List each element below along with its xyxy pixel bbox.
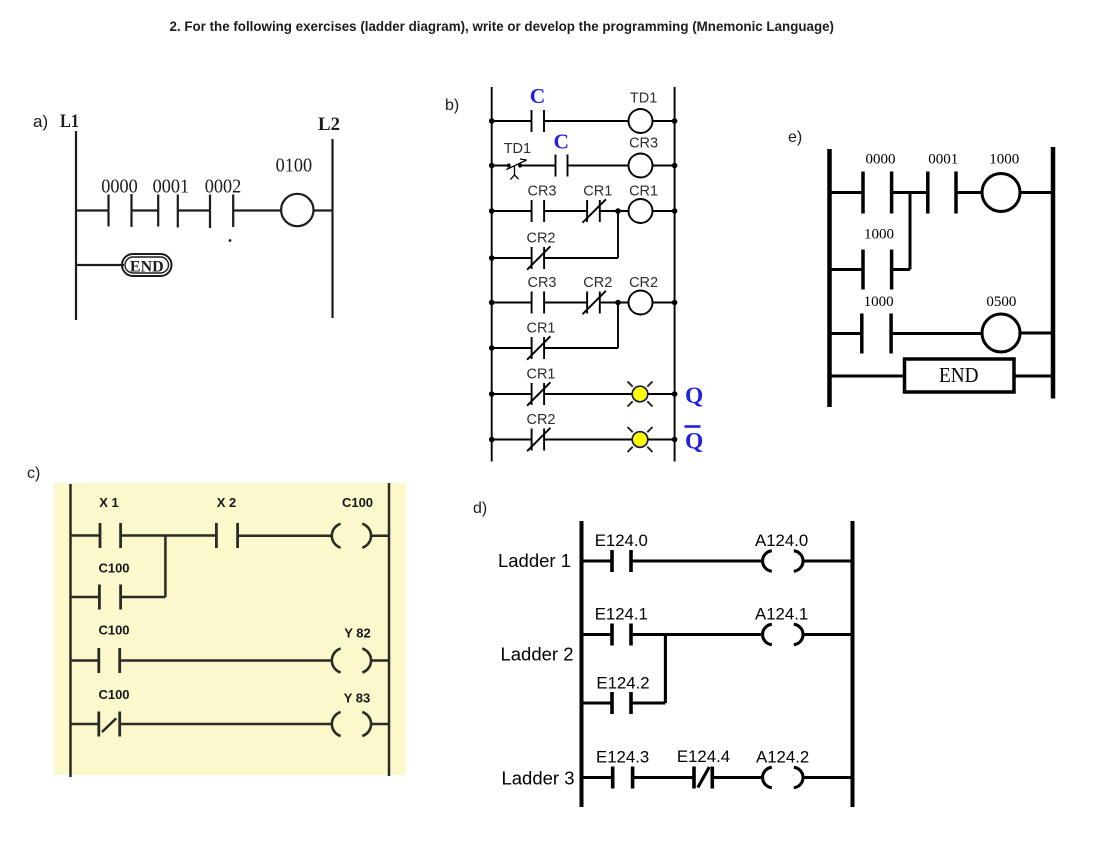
svg-text:CR2: CR2 [526,231,555,247]
svg-text:1000: 1000 [864,227,894,243]
wire [653,165,675,167]
wire [132,209,159,211]
svg-text:0000: 0000 [101,177,138,198]
node left rail rung4b [489,345,495,351]
wire [544,302,587,304]
contact CR2 NC rung4 [583,291,606,314]
branch riser [664,635,667,704]
node left rail rung5 [489,391,495,397]
coil A124.2 [763,767,803,787]
wire rung1 [76,209,109,211]
contact 1000 rung3 [862,314,891,354]
contact E124.4 NC [694,767,712,789]
node right rail rung4 [672,300,678,306]
svg-text:a): a) [33,112,48,131]
wire [803,559,853,562]
contact CR1 NC branch [527,336,550,359]
coil CR2 [629,291,653,315]
rung4 wire [830,375,905,378]
wire [1014,375,1053,378]
contact C rung2 [556,155,568,177]
contact E124.3 [613,767,633,789]
svg-text:0500: 0500 [986,294,1016,310]
rung3 wire [492,210,532,212]
contact 0000 [109,194,132,227]
left rail [827,149,832,407]
svg-text:Q: Q [685,429,703,455]
svg-text:C: C [554,130,570,154]
wire [314,209,333,211]
coil Y82 [332,649,371,673]
wire [653,210,675,212]
svg-text:END: END [130,259,164,276]
contact X2 [216,523,237,548]
svg-text:1000: 1000 [989,152,1019,168]
contact CR1 NC rung3 [583,199,606,222]
wire [631,559,763,562]
wire [544,347,618,349]
svg-text:0100: 0100 [276,156,313,177]
rung4 branch wire [492,347,532,349]
contact E124.0 [612,550,631,572]
svg-text:C100: C100 [342,495,373,510]
svg-text:1000: 1000 [864,294,894,310]
wire [600,302,629,304]
svg-text:X 2: X 2 [217,495,237,510]
wire [648,439,675,441]
svg-text:Ladder 1: Ladder 1 [498,550,571,571]
svg-text:c): c) [27,465,40,482]
panel background [54,483,406,775]
node left rail rung4 [489,300,495,306]
svg-text:TD1: TD1 [630,91,657,107]
wire [121,534,217,537]
wire [544,257,618,259]
svg-text:END: END [939,363,979,387]
wire [238,534,333,537]
wire [956,191,982,194]
contact 0001 [158,195,178,228]
wire [1020,191,1053,194]
stray mark [229,239,232,242]
svg-text:C100: C100 [98,687,129,702]
svg-text:e): e) [788,129,802,146]
svg-text:CR2: CR2 [629,275,658,291]
wire [121,596,166,599]
rung4 wire [492,302,532,304]
svg-text:CR1: CR1 [583,184,612,200]
node right rail rung3 [672,208,678,214]
svg-text:L2: L2 [318,114,340,135]
coil C100 [332,524,371,548]
left rail [580,521,584,807]
svg-text:E124.3: E124.3 [596,748,649,767]
node right rail rung5 [672,391,678,397]
wire [891,332,982,335]
svg-text:Ladder 2: Ladder 2 [500,644,573,665]
contact 1000 rung2 [863,250,892,290]
contact C100 branch [99,585,120,610]
rung1 wire [582,559,613,562]
coil 0100 [281,194,313,226]
coil Y83 [332,712,371,736]
svg-text:CR2: CR2 [583,275,612,291]
coil A124.0 [763,551,803,571]
wire [544,210,587,212]
contact 0001 [928,172,956,214]
wire [631,633,763,636]
svg-text:Q: Q [685,383,703,409]
node left rail rung1 [489,118,495,124]
wire [233,209,281,211]
rung1 wire [492,120,532,122]
contact C rung1 [532,110,545,132]
wire [370,534,389,537]
coil TD1 [629,109,653,133]
contact 0002 [210,195,233,229]
svg-text:X 1: X 1 [99,495,119,510]
contact X1 [100,523,121,548]
wire [631,701,665,704]
wire [803,633,853,636]
wire [803,776,853,779]
svg-text:0000: 0000 [866,152,896,168]
wire [544,120,629,122]
contact E124.2 [612,692,631,714]
svg-text:CR1: CR1 [629,184,658,200]
svg-text:Ladder 3: Ladder 3 [501,768,574,789]
svg-text:CR1: CR1 [526,367,555,383]
svg-text:d): d) [473,500,487,517]
contact CR2 NC rung6 [527,428,550,451]
rung2 wire [830,268,864,271]
node left rail rung2 [489,163,495,169]
timed contact TD1 [506,159,526,180]
wire [544,393,632,395]
svg-text:A124.1: A124.1 [755,605,808,624]
left rail [69,484,72,777]
svg-text:E124.1: E124.1 [595,605,648,624]
coil A124.1 [763,624,803,644]
wire to END [76,264,124,266]
lamp Qbar [628,427,653,452]
svg-text:C: C [530,84,546,108]
right rail [388,483,391,776]
wire [120,723,333,726]
branch riser [617,303,619,349]
wire [653,302,675,304]
rung2 branch wire [582,701,613,704]
coil CR3 [629,154,653,178]
coil 0500 [982,314,1020,352]
node right rail rung6 [672,437,678,443]
rung3 branch wire [492,257,532,259]
svg-text:TD1: TD1 [504,141,531,157]
contact C100 rung2 [99,648,120,673]
svg-text:L1: L1 [60,111,79,132]
svg-text:E124.2: E124.2 [596,674,649,693]
contact E124.1 [612,624,631,646]
END block [905,359,1015,392]
branch riser [617,211,619,258]
rung2 wire [71,659,99,662]
rail L1 [75,131,77,320]
rung2 wire [582,633,613,636]
wire [370,723,389,726]
contact CR3 rung3 [532,200,545,222]
svg-text:b): b) [445,97,459,114]
svg-text:2. For the following exercises: 2. For the following exercises (ladder d… [170,19,835,34]
rung6 wire [492,439,532,441]
rung2 wire [492,165,509,167]
wire [648,393,675,395]
lamp Q [628,382,653,407]
wire [370,659,389,662]
wire [568,165,629,167]
svg-text:CR3: CR3 [629,136,658,152]
svg-text:CR3: CR3 [527,184,556,200]
wire [178,209,210,211]
node right rail rung2 [672,163,678,169]
svg-text:E124.4: E124.4 [677,747,730,766]
node right rail rung1 [672,118,678,124]
wire [712,776,763,779]
svg-text:CR2: CR2 [526,412,555,428]
rung5 wire [492,393,532,395]
rung3 wire [830,332,862,335]
svg-text:CR3: CR3 [527,275,556,291]
contact CR2 NC branch [527,246,550,269]
contact C100 NC rung3 [99,712,120,737]
wire [600,210,629,212]
END block [122,254,172,276]
svg-text:0002: 0002 [205,177,242,198]
contact 0000 [863,172,892,214]
svg-text:A124.2: A124.2 [756,748,809,767]
coil CR1 [629,199,653,223]
rung3 wire [71,723,99,726]
wire [653,120,675,122]
wire [520,165,555,167]
branch wire [71,596,100,599]
svg-text:C100: C100 [98,623,129,638]
svg-text:C100: C100 [98,561,129,576]
wire [892,268,910,271]
node rung3 [615,208,621,214]
contact CR1 NC rung5 [527,382,550,405]
rail L2 [331,139,333,318]
wire [1020,332,1053,335]
label Qbar [685,427,704,455]
svg-text:0001: 0001 [153,177,190,198]
svg-text:CR1: CR1 [526,321,555,337]
contact CR3 rung4 [532,292,545,314]
right rail [851,521,855,807]
node rung4 [615,300,621,306]
wire [544,439,632,441]
coil 1000 [982,174,1020,212]
svg-text:Y 83: Y 83 [344,691,371,706]
rung1 wire [830,191,864,194]
right rail [1051,147,1056,399]
rung3 wire [582,776,613,779]
svg-text:0001: 0001 [928,152,958,168]
node left rail rung3 [489,208,495,214]
left rail [491,87,493,462]
wire [892,191,928,194]
branch riser [909,193,912,270]
svg-text:Y 82: Y 82 [344,626,371,641]
wire [120,659,333,662]
node left rail rung6 [489,437,495,443]
rung1 wire [71,534,101,537]
svg-text:A124.0: A124.0 [755,531,808,550]
branch riser [164,536,167,598]
right rail [674,87,676,462]
wire [633,776,694,779]
node left rail rung3b [489,255,495,261]
svg-text:E124.0: E124.0 [595,531,648,550]
